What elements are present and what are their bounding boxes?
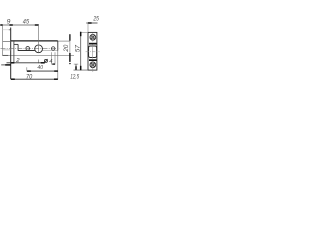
dimension 57 (plate height): [80, 32, 82, 70]
spindle centerline vertical / 45 extension: [38, 26, 40, 53]
extension for 25: [87, 23, 89, 32]
dimension 20 (case height, right end): [69, 34, 70, 64]
svg-text:40: 40: [37, 65, 43, 71]
latch bolt bottom edge: [3, 49, 11, 51]
dimension row 2/40: [7, 62, 45, 64]
bottom screw hole: [89, 61, 96, 72]
faceplate front edge: [2, 26, 4, 56]
bottom extension line for 57: [74, 69, 89, 71]
case bottom edge: [18, 50, 35, 52]
o4 extension lines: [50, 52, 52, 64]
faceplate outline: [88, 32, 97, 70]
case top edge: [11, 40, 58, 42]
small dimension row at plate: [1, 64, 11, 66]
dimension 25 (plate width): [86, 22, 97, 24]
case end edge: [57, 41, 59, 51]
follower small hole: [26, 47, 30, 51]
svg-text:12,5: 12,5: [70, 73, 79, 80]
svg-text:9: 9: [7, 19, 11, 26]
o4 mini dimension row: [51, 63, 55, 65]
dimension 12,5: [74, 64, 78, 70]
case end extension line down: [57, 51, 59, 80]
faceplate bottom edge: [2, 54, 8, 56]
upper black bar: [89, 43, 97, 45]
svg-text:20: 20: [63, 44, 70, 52]
svg-text:2: 2: [15, 58, 20, 64]
spindle hole (big circle): [35, 45, 43, 53]
latch bolt top edge: [3, 41, 11, 43]
latch bolt cutout: [89, 46, 97, 58]
dimension row (backset): [27, 67, 58, 71]
collar step down edge: [17, 44, 19, 50]
lower black bar: [89, 59, 97, 61]
top extension line for 57: [80, 31, 88, 33]
faceplate back edge / main extension line: [10, 28, 12, 80]
collar step horizontal: [14, 43, 18, 45]
svg-text:57: 57: [75, 45, 82, 53]
long reference line to the right of plate bottom: [8, 54, 74, 56]
collar step vertical: [13, 41, 15, 62]
circuit-free mechanical drawing of a tubular latch: [0, 0, 100, 100]
svg-text:45: 45: [23, 19, 30, 26]
fixing hole o4: [51, 47, 55, 51]
dimension 70 (case length): [11, 78, 58, 80]
svg-text:70: 70: [26, 74, 32, 81]
cutout centerlines: [92, 44, 94, 58]
top screw hole: [89, 33, 96, 42]
svg-text:25: 25: [93, 15, 99, 22]
axis centerline: [1, 48, 60, 50]
faceplate top edge: [3, 29, 11, 31]
dimension line 9/45 (top): [0, 24, 38, 26]
label o4: [44, 59, 48, 63]
